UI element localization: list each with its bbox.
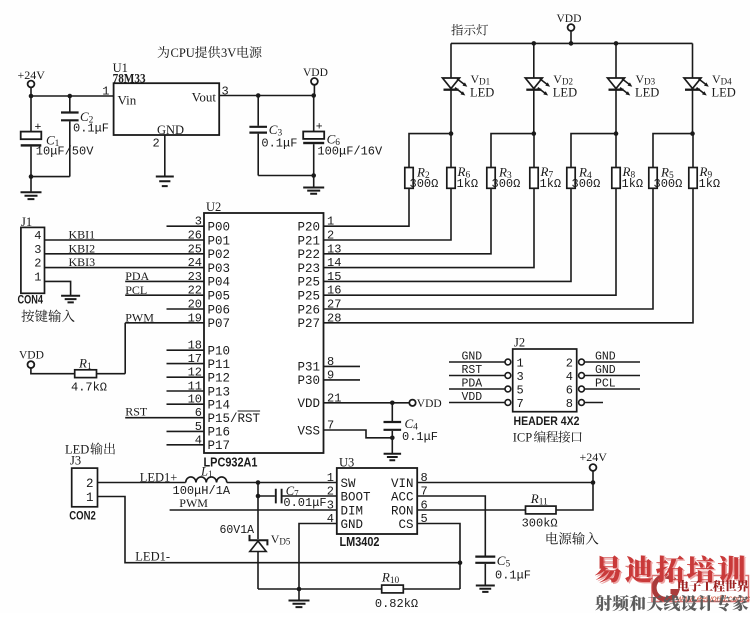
wire VD3 to node [615,90,617,134]
wire node to R5 [653,134,693,168]
wire VSS to C4 [324,430,393,438]
junction VD2 node [532,131,537,136]
regulator U1 78M33 [114,83,220,135]
wire PDA [125,280,204,282]
svg-text:CS: CS [398,518,413,532]
U2 pin 14 P23 [297,256,341,276]
svg-text:P05: P05 [208,290,231,304]
svg-text:ICP: ICP [513,431,533,445]
wire Vout to VDD [219,95,314,97]
note 指示灯 [451,24,488,35]
diode VD5 zener [250,535,268,552]
svg-text:7: 7 [517,397,524,411]
svg-text:300kΩ: 300kΩ [522,517,558,531]
svg-text:2: 2 [566,357,573,371]
svg-text:GND: GND [157,123,184,137]
wire VD2 to node [533,90,535,134]
watermark text 射频和天线设计专家 [595,595,748,612]
svg-text:HEADER 4X2: HEADER 4X2 [514,414,580,428]
svg-text:+: + [316,119,323,133]
svg-text:P02: P02 [208,248,231,262]
resistor R7 1k [533,134,535,168]
U2 pin 11 P13 [188,380,230,400]
svg-text:1kΩ: 1kΩ [457,177,479,191]
svg-text:P10: P10 [208,345,231,359]
svg-text:U3: U3 [339,456,354,470]
svg-text:0.1μF: 0.1μF [73,122,109,136]
wire KBI3 [45,267,205,269]
junction GND R10 [297,587,302,592]
wire node to R2 [409,134,451,168]
svg-text:RON: RON [391,504,414,518]
svg-text:P25: P25 [297,276,320,290]
junction SW node [256,480,261,485]
svg-text:LED: LED [553,86,577,100]
note 电源输入 [547,532,599,545]
terminal VDD right [409,400,415,406]
svg-text:CON2: CON2 [69,509,96,523]
wire R8 to U2 [324,188,617,295]
svg-text:P11: P11 [208,358,231,372]
svg-text:16: 16 [327,284,341,298]
capacitor C3 [257,96,259,126]
wire R6 to U2 [324,188,452,240]
svg-text:RST: RST [462,364,483,377]
watermark url [677,593,750,603]
svg-text:13: 13 [327,242,341,256]
svg-text:2: 2 [86,477,94,491]
wire bus to VD4 [692,43,694,78]
svg-text:LED1-: LED1- [135,550,170,564]
svg-text:1kΩ: 1kΩ [540,177,562,191]
resistor R11 [526,506,557,514]
wire CS down [417,524,460,590]
U1 GND pin wire [164,135,166,176]
U2 pin 19 P07 [188,311,230,331]
U2 pin 27 P26 [297,298,341,318]
svg-text:LED: LED [635,86,659,100]
U2 left stub wire [167,403,205,405]
wire bus to VD1 [450,43,452,78]
svg-text:LPC932A1: LPC932A1 [204,456,258,470]
U2 pin 26 P01 [188,229,230,249]
U2 pin 5 P16 [195,420,230,440]
svg-text:PWM: PWM [179,496,208,510]
junction C1 ground [29,174,34,179]
svg-text:300Ω: 300Ω [492,177,521,191]
junction CS LED1- [458,560,463,565]
svg-text:P00: P00 [208,221,231,235]
svg-text:4: 4 [566,370,573,384]
wire VD5 to R10 line [257,552,259,590]
note 按键输入 [21,310,74,323]
capacitor C7 [276,489,282,504]
watermark text 易迪拓培训 [595,555,746,584]
U3 pin 1 SW [327,471,356,491]
wire R2 to U2 [324,188,410,226]
note ICP编程接口 [513,431,582,445]
wire L1 to U3 SW [227,482,337,484]
U2 pin 20 P06 [188,298,230,318]
junction VD4 node [690,131,695,136]
U2 left stub wire [167,225,205,227]
U2 left stub wire [167,363,205,365]
svg-text:14: 14 [327,256,341,270]
ground U3 [289,601,310,608]
svg-text:GND: GND [341,518,364,532]
J2 pin 1 [505,357,524,371]
wire P30 stub [324,379,361,381]
resistor R9 1k [692,134,694,168]
wire VDD to R1 [31,368,75,374]
J2 pin 5 [505,384,524,398]
wire KBI2 [45,253,205,255]
resistor R1 [75,370,97,378]
J2 pin 7 [505,397,524,411]
wire to U1 Vin [31,95,114,97]
svg-text:3: 3 [34,243,41,257]
wire VIN to +24V [417,482,593,484]
wire R5 to U2 [324,188,654,309]
U2 pin 10 P14 [188,393,230,413]
wire J2 pin 8 stub [584,402,603,404]
wire J2 pin 4 GND [584,375,640,377]
junction VD3 node [614,131,619,136]
wire ACC to C5 [417,496,485,556]
svg-text:KBI1: KBI1 [69,228,96,242]
U2 left stub wire [167,376,205,378]
U2 left stub wire [167,308,205,310]
J2 pin 3 [505,370,524,384]
wire R10 line [258,588,382,590]
wire KBI1 [45,239,205,241]
wire J2 pin 2 GND [584,361,640,363]
resistor R10 [382,585,404,593]
svg-text:GND: GND [462,351,483,364]
svg-text:P07: P07 [208,317,231,331]
wire VDD stub [313,85,315,96]
capacitor C1 electrolytic [30,96,32,132]
svg-text:P25: P25 [297,290,320,304]
wire C1-C2 bottom [31,176,70,178]
wire VD1 to node [450,90,452,134]
svg-text:5: 5 [517,384,524,398]
ground C1 [30,177,32,192]
U3 pin 5 CS [398,512,427,532]
svg-text:Vin: Vin [118,93,137,108]
svg-text:PCL: PCL [595,378,616,391]
U2 pin 9 P30 [297,368,334,388]
wire J2 pin 7 VDD [449,402,505,404]
svg-text:0.01μF: 0.01μF [283,496,326,510]
svg-text:+24V: +24V [580,450,608,464]
U2 pin 28 P27 [297,311,341,331]
svg-text:VDD: VDD [462,391,483,404]
resistor R5 300ohm [649,168,657,189]
U3 pin 3 DIM [327,499,363,519]
svg-text:KBI3: KBI3 [69,255,96,269]
wire C3-C6 bottom [258,175,314,177]
LED driver U3 LM3402 [337,468,417,534]
wire LED bus [451,42,693,44]
svg-text:100μF/16V: 100μF/16V [317,145,383,159]
svg-text:LED: LED [470,86,494,100]
wire R10 to CS [403,588,460,590]
U2 left stub wire [167,430,205,432]
junction +24V [591,480,596,485]
wire C7 to BOOT [283,495,337,497]
title note 为CPU提供3V电源 [158,46,262,60]
resistor R8 1k [615,134,617,168]
svg-text:SW: SW [341,477,357,491]
svg-text:3: 3 [327,499,334,513]
svg-text:1: 1 [102,85,109,99]
U2 pin 16 P25 [297,284,341,304]
svg-text:6: 6 [566,384,573,398]
svg-text:PDA: PDA [462,378,483,391]
svg-text:3: 3 [222,85,229,99]
svg-text:P13: P13 [208,385,231,399]
svg-text:8: 8 [566,397,573,411]
svg-text:VDD: VDD [19,350,44,362]
J2 pin 8 [566,397,585,411]
junction C3 [256,93,261,98]
svg-text:U2: U2 [206,200,221,214]
U3 pin 4 GND [327,512,363,532]
svg-text:ACC: ACC [391,490,414,504]
U3 pin 2 BOOT [327,485,371,505]
svg-text:27: 27 [327,298,341,312]
U3 pin 7 ACC [391,485,428,505]
svg-text:BOOT: BOOT [341,490,372,504]
U2 left stub wire [167,444,205,446]
svg-text:VDD: VDD [557,13,582,25]
junction bus VD2 [532,41,537,46]
svg-text:P20: P20 [297,221,320,235]
U2 pin 18 P10 [188,339,230,359]
svg-text:Vout: Vout [192,90,217,105]
svg-text:LED1+: LED1+ [140,471,178,485]
svg-text:J3: J3 [70,454,81,468]
wire bus to VD2 [533,43,535,78]
resistor R6 1k [450,134,452,168]
U2 pin 3 P00 [195,215,230,235]
svg-text:P12: P12 [208,372,231,386]
wire P31 stub [324,365,361,367]
svg-text:300Ω: 300Ω [572,177,601,191]
ground C5 [476,586,495,592]
capacitor C6 electrolytic [313,96,315,132]
svg-text:LM3402: LM3402 [340,535,380,549]
ground C6 [313,176,315,188]
svg-text:P30: P30 [297,374,320,388]
junction bus VD3 [614,41,619,46]
svg-text:DIM: DIM [341,504,364,518]
capacitor C4 [391,403,393,421]
svg-text:P16: P16 [208,426,231,440]
svg-text:P27: P27 [297,317,320,331]
svg-text:2: 2 [34,257,41,271]
wire PWM to DIM [170,509,337,511]
junction VD1 node [449,131,454,136]
svg-text:4.7kΩ: 4.7kΩ [71,381,107,395]
svg-text:4: 4 [34,229,41,243]
wire VDD pin to terminal [324,402,410,404]
wire +24V stub [592,471,594,483]
U3 pin 6 RON [391,499,428,519]
svg-text:P21: P21 [297,234,320,248]
svg-text:2: 2 [327,229,334,243]
svg-text:VDD: VDD [303,67,328,79]
wire RON to R11 [417,509,525,511]
U2 pin 23 P04 [188,270,230,290]
svg-text:1: 1 [327,215,334,229]
svg-text:RST: RST [125,405,148,419]
svg-text:3V: 3V [221,46,236,60]
svg-text:P22: P22 [297,248,320,262]
wire R11 to +24V [556,483,593,511]
svg-text:10μF/50V: 10μF/50V [36,145,94,159]
U2 pin 22 P05 [188,284,230,304]
J2 pin 2 [566,357,585,371]
watermark logo [654,576,676,599]
J2 pin 4 [566,370,585,384]
wire node to R3 [491,134,534,168]
LED VD3 [608,78,633,96]
ground C4 [391,438,393,454]
svg-text:P31: P31 [297,361,320,375]
wire R3 to U2 [324,188,492,254]
junction C4 bottom [390,436,395,441]
wire J2 pin 3 RST [449,375,505,377]
wire PWM to P07 [125,322,204,324]
wire J1 pin1 to ground [45,281,71,295]
svg-text:1: 1 [517,357,524,371]
ground J1 [61,296,80,303]
wire J2 pin 1 GND [449,361,505,363]
U2 pin 24 P03 [188,256,230,276]
svg-text:P23: P23 [297,262,320,276]
U2 pin 12 P12 [188,366,230,386]
U2 pin 6 P15/RST [195,406,261,426]
wire PWM to R1 [124,323,126,374]
svg-text:P26: P26 [297,303,320,317]
wire LED1- from J3 [98,497,461,563]
svg-text:1: 1 [327,471,334,485]
U2 pin 17 P11 [188,352,230,372]
svg-text:0.1μF: 0.1μF [402,430,438,444]
wire bus to VD3 [615,43,617,78]
resistor R3 300ohm [487,168,495,189]
wire R7 to U2 [324,188,535,267]
svg-text:0.1μF: 0.1μF [495,569,531,583]
U2 pin 1 P20 [297,215,334,235]
svg-text:CPU: CPU [171,46,195,60]
U3 pin 8 VIN [391,471,428,491]
svg-text:1kΩ: 1kΩ [622,177,644,191]
junction +24V/C1 [29,94,34,99]
junction C2 top [68,94,73,99]
svg-text:P15/RST: P15/RST [208,412,261,426]
LED VD2 [525,78,550,96]
svg-text:2: 2 [153,137,160,151]
wire PCL [125,294,204,296]
svg-text:CON4: CON4 [18,293,44,307]
capacitor C5 [475,557,495,563]
J2 pin 6 [566,384,585,398]
LED VD1 [443,78,468,96]
junction VDD bus [569,41,574,46]
junction C6 [311,93,316,98]
wire LED1+ to L1 [98,482,186,484]
MCU U2 LPC932A1 [204,213,324,453]
svg-text:KBI2: KBI2 [69,241,96,255]
wire VD4 to node [692,90,694,134]
wire SW node down [257,483,259,540]
U2 pin 2 P21 [297,229,334,249]
wire J2 pin 6 PCL [584,388,640,390]
wire RST [125,417,204,419]
U2 pin 4 P17 [195,433,230,453]
svg-text:P03: P03 [208,262,231,276]
junction C6 ground [311,173,316,178]
svg-text:P06: P06 [208,303,231,317]
note LED输出 [65,442,115,456]
wire R4 to U2 [324,188,572,281]
svg-text:P04: P04 [208,276,231,290]
wire to C7 [258,495,275,497]
U2 pin 15 P25 [297,270,341,290]
wire VDD to bus [570,31,572,44]
svg-text:300Ω: 300Ω [654,177,683,191]
svg-text:P17: P17 [208,439,231,453]
inductor L1 [186,477,227,483]
svg-text:78M33: 78M33 [113,72,146,86]
svg-text:GND: GND [595,351,616,364]
svg-text:28: 28 [327,311,341,325]
wire node to R4 [571,134,616,168]
svg-text:2: 2 [327,485,334,499]
svg-text:LED: LED [712,86,736,100]
svg-text:1: 1 [34,270,41,284]
U2 left stub wire [167,390,205,392]
ground U1 [156,177,174,187]
U2 left stub wire [167,349,205,351]
svg-text:300Ω: 300Ω [410,177,439,191]
svg-text:0.82kΩ: 0.82kΩ [375,597,418,611]
wire R9 to U2 [324,188,694,322]
svg-text:VDD: VDD [297,397,320,411]
svg-text:1kΩ: 1kΩ [699,177,721,191]
wire J2 pin 5 PDA [449,388,505,390]
svg-text:0.1μF: 0.1μF [261,137,297,151]
resistor R2 300ohm [405,168,413,189]
wire R1 to PWM [97,373,126,375]
U2 pin 21 VDD [297,391,341,411]
U2 pin 7 VSS [297,419,334,439]
svg-text:VDD: VDD [417,398,442,410]
svg-text:1: 1 [86,491,94,505]
U2 pin 13 P22 [297,242,341,262]
svg-text:VSS: VSS [297,424,320,438]
junction C4 top [390,401,395,406]
svg-text:GND: GND [595,364,616,377]
capacitor C2 [69,96,71,112]
U2 pin 8 P31 [297,355,334,375]
junction C7 tap [256,494,261,499]
U2 pin 25 P02 [188,242,230,262]
resistor R4 300ohm [567,168,575,189]
